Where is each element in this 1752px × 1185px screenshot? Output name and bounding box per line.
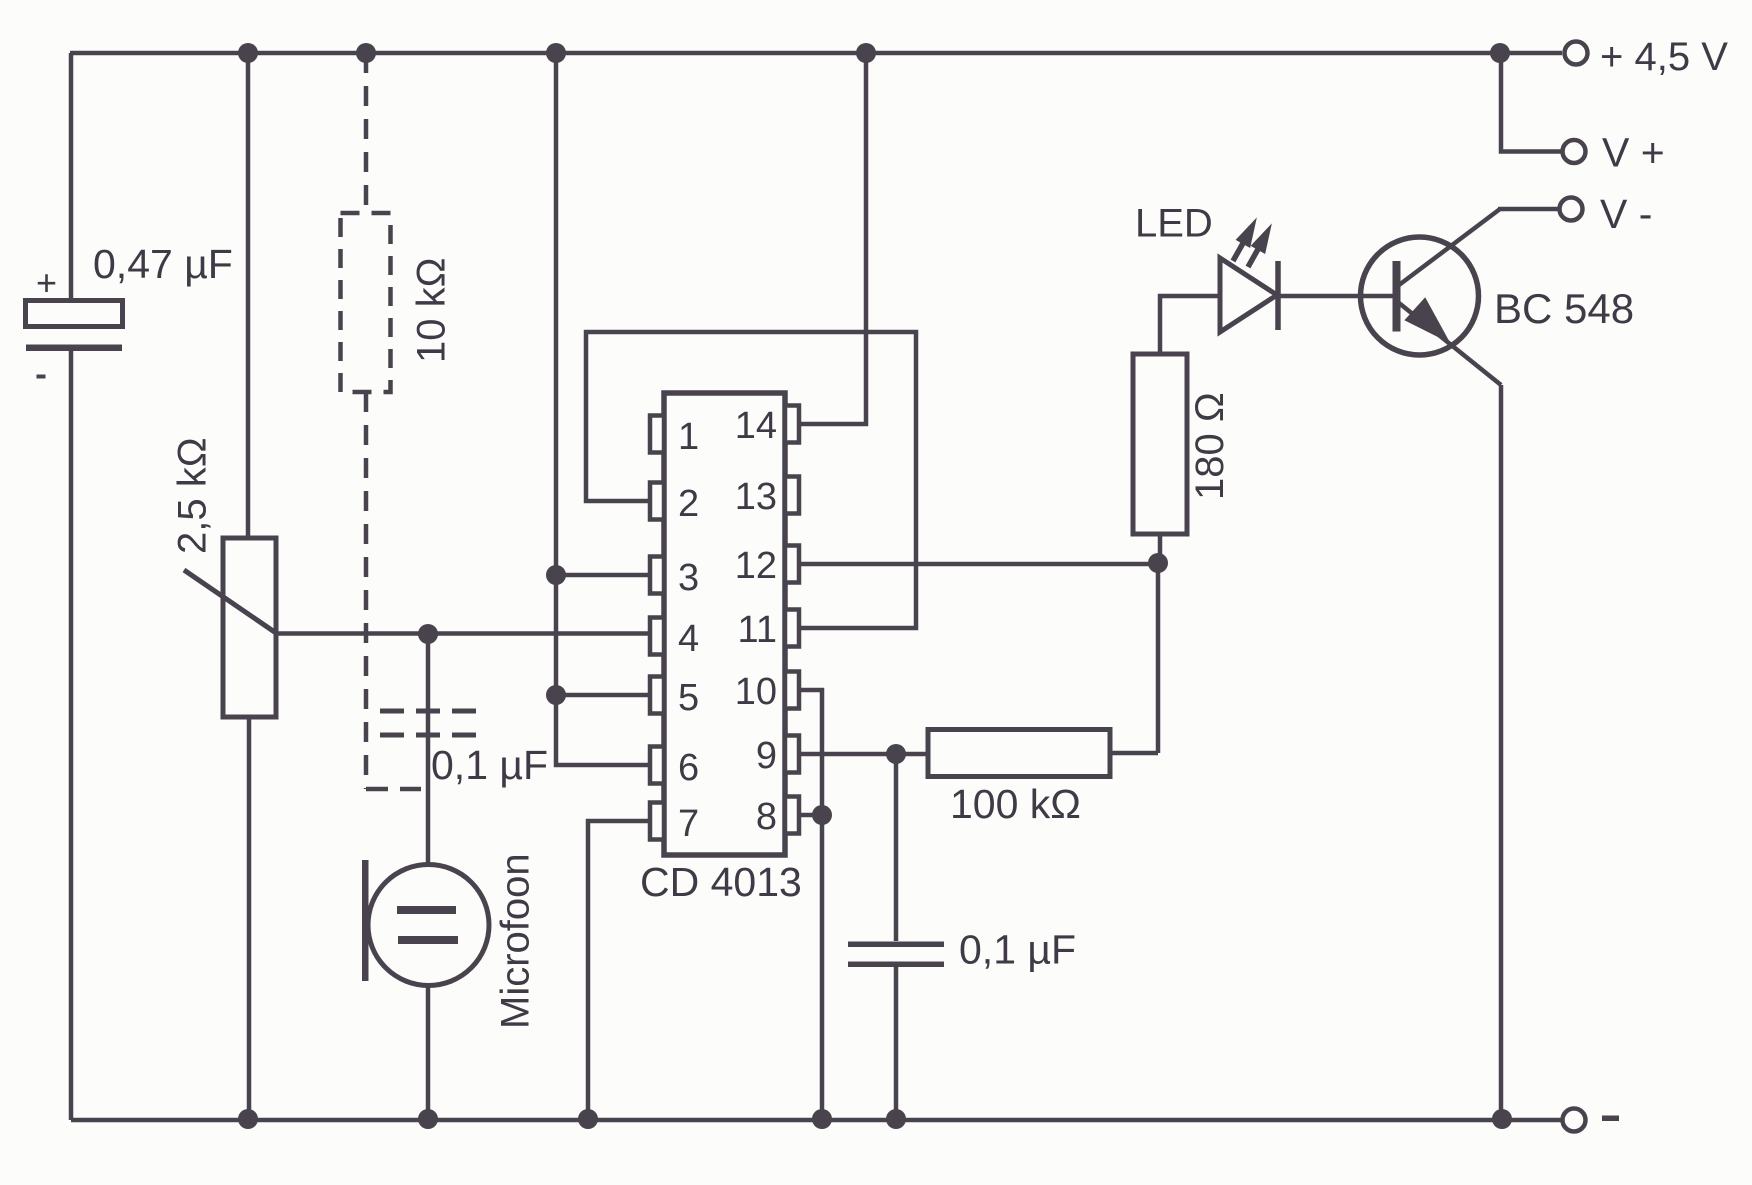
wire bottom ground rail [71,1118,1561,1123]
wire pin 9 to 100k [799,752,928,757]
svg-text:0,1 µF: 0,1 µF [959,927,1076,973]
wire pin 7 to bottom rail [588,821,650,1120]
node top rail / pin 14 [856,43,876,63]
wire top supply rail [70,51,1562,56]
svg-text:LED: LED [1135,202,1213,246]
wire top rail to potentiometer [246,53,251,538]
resistor R3 180 ohm body [1133,354,1187,534]
svg-text:9: 9 [756,735,777,777]
capacitor C2 dashed 0,1 uF bottom plate [380,733,476,738]
node pin 5 junction [546,685,566,705]
IC U1 CD4013 body [664,393,785,855]
pin 11 tab [785,610,799,647]
potentiometer P1 wiper [184,570,276,633]
svg-text:BC 548: BC 548 [1494,285,1634,332]
capacitor C3 0,1 uF bottom plate [848,962,944,968]
capacitor C2 dashed 0,1 uF top plate [380,709,476,714]
svg-text:+: + [36,262,57,303]
wire wiper to pin 4 [276,631,650,636]
node bottom rail / potentiometer [238,1109,258,1129]
microphone M1 body [368,865,489,986]
wire capacitor to bottom rail [894,967,899,1120]
pin 1 tab [650,416,664,453]
node bottom rail / capacitor [886,1109,906,1129]
wire pin 8 stub [799,813,822,818]
pin 2 tab [650,483,664,520]
node top rail / potentiometer [238,43,258,63]
svg-text:12: 12 [735,545,777,587]
transistor Q1 emitter arrowhead [1406,299,1448,341]
wire net pins 3-5-6 vertical from top rail [556,53,650,765]
pin 4 tab [650,618,664,655]
wire pin 14 to top rail [799,53,866,424]
svg-text:13: 13 [735,476,777,518]
pin 8 tab [785,797,799,834]
capacitor C1 0,47 uF top plate [26,301,123,327]
svg-text:10 kΩ: 10 kΩ [410,257,454,363]
LED D1 light ray 1 [1233,219,1256,261]
terminal minus [1563,1109,1586,1132]
node bottom rail / pin 7 [578,1109,598,1129]
wire collector to V- terminal [1399,209,1559,285]
pin 6 tab [650,747,664,784]
wire pin 3 stub [556,573,650,578]
pin 7 tab [650,803,664,840]
resistor R2 100k body [928,730,1110,777]
svg-text:V -: V - [1600,191,1652,237]
microphone M1 side bar [362,860,369,981]
node A wiper junction [418,624,438,644]
pin 14 tab [785,406,799,443]
wire node A down to microphone [426,634,431,866]
wire left rail down to battery [69,53,74,301]
node bottom rail / emitter [1492,1109,1512,1129]
node bottom rail / pin 8 net [812,1109,832,1129]
resistor R1 10k dashed corner to node A [366,787,421,792]
pin 9 tab [785,736,799,773]
wire LED cathode to transistor base [1277,294,1394,299]
svg-text:4: 4 [678,618,699,660]
capacitor C3 0,1 uF top plate [848,942,944,948]
svg-text:5: 5 [678,677,699,719]
svg-text:+ 4,5 V: + 4,5 V [1600,35,1728,79]
wire pin 2 loop to pin 11 [586,332,916,628]
wire 180 ohm top to LED anode [1160,296,1220,354]
node top rail / V+ [1490,43,1510,63]
pin 5 tab [650,677,664,714]
node top rail / pin net [546,43,566,63]
microphone M1 upper electrode [397,906,456,914]
pin 13 tab [785,477,799,514]
svg-text:Microfoon: Microfoon [494,853,538,1029]
node pin 3 junction [546,565,566,585]
svg-text:6: 6 [678,747,699,789]
wire battery minus to bottom rail [69,348,74,1120]
node top rail / 10k dashed [356,43,376,63]
svg-text:11: 11 [738,609,777,651]
label C1 minus [37,375,46,379]
wire microphone to bottom rail [426,984,431,1120]
wire pin 10 down to bottom rail [799,690,822,1120]
wire emitter to bottom rail [1399,303,1501,1120]
svg-text:2: 2 [678,483,699,525]
transistor Q1 base bar [1393,261,1401,332]
svg-text:180 Ω: 180 Ω [1188,392,1232,500]
pin 12 tab [785,546,799,583]
LED D1 cathode bar [1275,261,1281,330]
transistor Q1 BC548 body circle [1361,237,1479,355]
resistor R1 10k dashed lead from top rail [364,53,369,213]
pin 10 tab [785,672,799,709]
wire 100k right end up to junction [1110,563,1158,753]
svg-text:V +: V + [1602,130,1665,176]
resistor R1 10k dashed lead down [364,392,369,789]
svg-text:14: 14 [735,405,777,447]
node bottom rail / microphone [418,1109,438,1129]
svg-text:10: 10 [735,671,777,713]
svg-text:100 kΩ: 100 kΩ [950,781,1081,827]
terminal +4,5V [1565,42,1588,65]
label minus [1602,1116,1619,1122]
wire pin 12 to R 180 junction [799,562,1158,567]
potentiometer P1 body [223,538,276,717]
microphone M1 lower electrode [398,936,458,944]
svg-text:0,47 µF: 0,47 µF [93,241,233,287]
wire 180 ohm bottom to junction [1158,534,1163,564]
wire pin 5 stub [556,693,650,698]
LED D1 triangle [1220,258,1277,332]
resistor R1 10k dashed body [341,213,391,392]
wire pin 9 node down to capacitor [894,754,899,941]
pin 3 tab [650,557,664,594]
node pin 8 junction [812,805,832,825]
svg-text:CD 4013: CD 4013 [640,859,802,905]
wire potentiometer bottom to bottom rail [247,717,252,1120]
svg-text:2,5 kΩ: 2,5 kΩ [171,437,215,554]
svg-text:7: 7 [678,803,699,845]
svg-text:8: 8 [756,796,777,838]
wire V+ branch [1501,53,1562,152]
node R3 junction [1148,553,1168,573]
svg-text:0,1 µF: 0,1 µF [431,742,548,788]
LED D1 light ray 2 [1248,225,1271,267]
capacitor C1 bottom plate [26,345,122,352]
node pin 9 junction [886,744,906,764]
svg-text:3: 3 [678,557,699,599]
svg-text:1: 1 [678,416,699,458]
terminal V- [1560,198,1583,221]
terminal V+ [1563,140,1586,163]
